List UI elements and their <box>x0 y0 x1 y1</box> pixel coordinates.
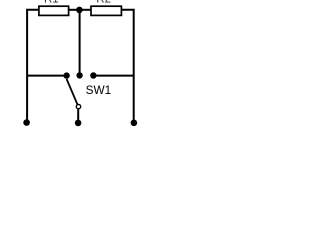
wire middle bus left segment <box>27 75 66 77</box>
wire switch pole to bottom-middle terminal <box>77 109 79 122</box>
wire middle bus right segment <box>93 75 133 77</box>
switch SW1 lever <box>67 79 78 104</box>
contact dot right (switch throw 3) <box>90 72 96 78</box>
wire node A to R2 <box>79 9 91 11</box>
node A junction dot <box>76 7 83 14</box>
wire R2 to right vertical, down to bottom-right terminal <box>121 10 133 123</box>
resistor R1 <box>39 6 69 15</box>
wire node A down to switch common contact <box>79 10 81 73</box>
contact dot left (switch throw 1) <box>63 72 69 78</box>
terminal dot bottom-middle <box>75 120 82 127</box>
terminal dot bottom-right <box>131 120 138 127</box>
svg-text:R1: R1 <box>44 0 59 6</box>
contact dot middle (switch throw 2) <box>76 72 82 78</box>
terminal dot bottom-left <box>23 119 30 126</box>
wire left vertical with top corner to R1 <box>27 10 39 123</box>
svg-text:R2: R2 <box>96 0 111 6</box>
resistor R2 <box>91 6 121 15</box>
wire R1 to node A <box>69 9 80 11</box>
switch SW1 pole circle <box>76 104 80 108</box>
svg-text:SW1: SW1 <box>86 83 112 97</box>
